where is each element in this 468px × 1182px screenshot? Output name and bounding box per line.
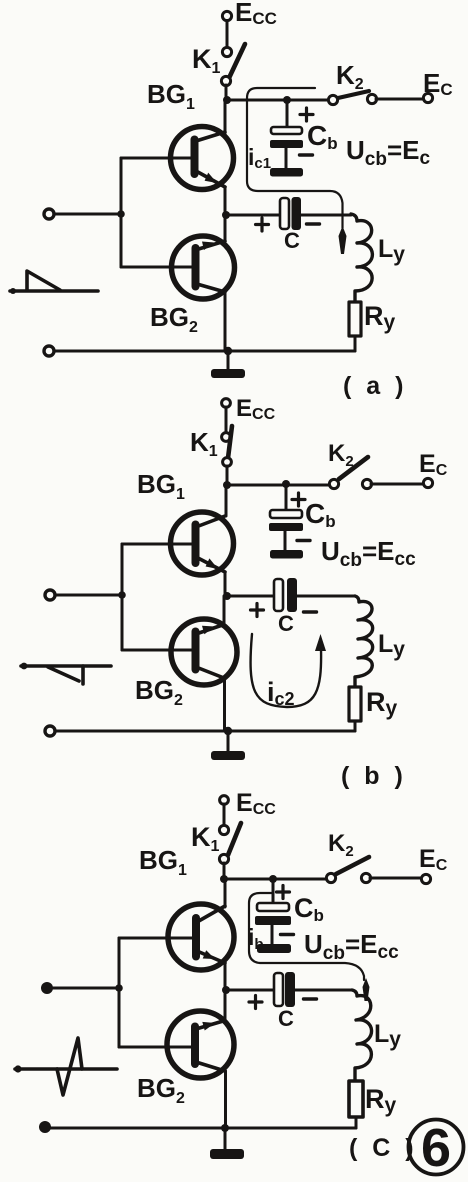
capacitor C right plate (b) (287, 578, 297, 612)
svg-text:Cb: Cb (305, 498, 336, 531)
svg-text:ic2: ic2 (267, 677, 295, 709)
label - of C (c) (304, 997, 317, 1000)
wire Ecc to K1 (c) (223, 804, 226, 826)
svg-text:Ucb=Ecc: Ucb=Ecc (304, 929, 399, 964)
svg-text:ic1: ic1 (248, 144, 271, 172)
ground bar under Cb (b) (270, 550, 303, 559)
junction ground node (c) (221, 1124, 229, 1132)
input waveform falling sawtooth (b) (21, 663, 111, 684)
transistor BG1 (b) (171, 485, 234, 596)
svg-text:EC: EC (423, 68, 453, 99)
figure number 6 circled (409, 1118, 464, 1178)
switch K1 upper contact (a) (222, 47, 231, 56)
capacitor Cb positive plate (b) (270, 510, 302, 518)
label + of C (a) (256, 218, 269, 231)
svg-text:6: 6 (421, 1118, 451, 1178)
wire Cb bottom stub (a) (285, 148, 288, 168)
terminal Ec (a) (423, 93, 432, 102)
junction Cb top (b) (282, 480, 290, 488)
wire top rail (c) (224, 878, 327, 881)
switch K2 blade open (b) (339, 457, 368, 479)
wire node to C (b) (227, 595, 274, 598)
junction emitter node (c) (222, 986, 230, 994)
junction collector rail (c) (220, 875, 228, 883)
wire base lead BG1 (a) (121, 157, 191, 160)
wire K2 to Ec (a) (376, 98, 423, 101)
wire K1 to rail (a) (225, 85, 228, 100)
capacitor Cb positive plate (c) (257, 903, 289, 911)
capacitor C left plate (b) (274, 579, 283, 611)
resistor Ry (a) (349, 302, 361, 336)
wire bottom return (b) (50, 730, 355, 733)
transistor BG2 (b) (171, 596, 237, 731)
wire base lead BG2 (b) (122, 649, 192, 652)
terminal input upper solid (c) (41, 982, 53, 994)
resistor Ry (c) (349, 1081, 363, 1117)
capacitor C right plate (a) (292, 197, 302, 230)
label - of Cb (b) (297, 539, 310, 542)
switch K2 right contact (b) (362, 479, 371, 488)
junction collector rail (b) (223, 481, 231, 489)
svg-text:Cb: Cb (307, 120, 338, 153)
wire Ecc to K1 (a) (226, 21, 229, 48)
junction emitter node (a) (222, 211, 230, 219)
wire C to Ly (a) (301, 214, 351, 217)
wire ground stub (c) (224, 1128, 227, 1149)
svg-text:BG2: BG2 (150, 302, 198, 336)
wire base lead BG2 (c) (119, 1046, 191, 1049)
capacitor Cb positive plate (a) (271, 127, 302, 134)
svg-text:K2: K2 (336, 60, 364, 93)
inductor Ly (a) (351, 214, 372, 302)
wire C to Ly (c) (295, 989, 352, 992)
resistor Ry (b) (349, 687, 361, 721)
ground (b) (211, 751, 245, 760)
svg-text:ECC: ECC (236, 395, 276, 423)
wire top rail (a) (227, 99, 329, 102)
svg-text:BG2: BG2 (135, 675, 183, 709)
wire input to bases (c) (47, 987, 119, 990)
terminal Ec (c) (421, 874, 430, 883)
input waveform sawtooth (a) (10, 271, 98, 294)
wire top rail (b) (227, 484, 330, 487)
capacitor C left plate (c) (274, 973, 283, 1006)
transistor BG2 (a) (172, 215, 235, 351)
label + of Cb (b) (292, 493, 305, 506)
svg-text:EC: EC (419, 450, 448, 479)
svg-text:K1: K1 (191, 822, 220, 855)
svg-text:Ry: Ry (366, 687, 398, 720)
switch K1 blade (c) (228, 823, 241, 855)
switch K2 blade closed (a) (338, 91, 369, 98)
terminal Ecc (b) (222, 399, 231, 408)
wire K2 to Ec (b) (371, 483, 424, 486)
svg-text:( a ): ( a ) (343, 372, 407, 400)
ground (a) (211, 369, 245, 378)
transistor BG2 (c) (167, 990, 234, 1128)
wire K1 to rail (b) (226, 466, 229, 485)
switch K1 lower contact (b) (223, 458, 232, 467)
junction collector rail (a) (223, 96, 231, 104)
wire bottom return (a) (49, 350, 355, 353)
svg-text:BG1: BG1 (139, 845, 187, 879)
wire Cb bottom stub (c) (271, 925, 274, 944)
switch K2 blade open (c) (336, 857, 369, 874)
wire base lead BG1 (b) (122, 543, 192, 546)
terminal input upper (a) (44, 209, 54, 219)
switch K2 left contact (c) (326, 873, 335, 882)
capacitor Cb negative plate (b) (269, 523, 303, 531)
transistor BG1 (c) (168, 879, 234, 990)
svg-text:EC: EC (419, 845, 448, 874)
svg-text:K1: K1 (190, 427, 218, 460)
svg-text:ECC: ECC (236, 789, 276, 818)
junction base node (a) (117, 210, 125, 218)
capacitor C left plate (a) (280, 198, 289, 229)
svg-text:K2: K2 (328, 440, 354, 470)
wire Cb top stub (c) (272, 879, 275, 902)
wire Ry to bottom (c) (355, 1117, 358, 1128)
terminal input lower solid (c) (39, 1121, 51, 1133)
capacitor C right plate (c) (285, 972, 295, 1007)
terminal Ecc (c) (220, 796, 229, 805)
svg-text:ECC: ECC (235, 0, 277, 28)
switch K1 upper contact (b) (222, 433, 231, 442)
wire Ry to bottom (a) (354, 336, 357, 351)
switch K2 left contact (b) (329, 479, 338, 488)
switch K1 blade (b) (228, 426, 232, 458)
svg-text:Ly: Ly (374, 1020, 401, 1051)
switch K1 lower contact (a) (221, 76, 230, 85)
wire base lead BG1 (c) (119, 937, 192, 940)
label + of C (b) (251, 604, 264, 617)
label - of Cb (a) (300, 153, 313, 156)
svg-text:Ucb=Ec: Ucb=Ec (346, 135, 431, 170)
current arrow ib (c) (363, 978, 370, 1001)
capacitor Cb negative plate (a) (270, 140, 303, 148)
junction ground node (a) (224, 347, 232, 355)
label - of C (a) (307, 222, 320, 225)
junction base node (b) (118, 591, 126, 599)
svg-text:BG1: BG1 (137, 469, 185, 503)
terminal input lower (b) (45, 726, 55, 736)
wire Cb top stub (b) (285, 484, 288, 510)
label - of C (b) (304, 610, 317, 613)
wire Ry to bottom (b) (354, 721, 357, 731)
switch K2 left contact (a) (328, 95, 337, 104)
wire bottom return (c) (45, 1127, 356, 1130)
svg-text:Ucb=Ecc: Ucb=Ecc (321, 536, 416, 571)
svg-text:( b ): ( b ) (341, 762, 407, 790)
current arrow ic2 (b) (315, 634, 326, 651)
wire base bus (c) (118, 938, 121, 1047)
wire Ecc to K1 (b) (225, 407, 228, 433)
svg-text:K1: K1 (192, 44, 221, 77)
svg-text:BG2: BG2 (137, 1073, 185, 1107)
wire C to Ly (b) (297, 595, 355, 598)
junction Cb top (a) (283, 96, 291, 104)
label - of Cb (c) (281, 933, 294, 936)
svg-text:Ly: Ly (378, 235, 405, 266)
wire base bus (a) (120, 158, 123, 267)
switch K1 lower contact (c) (219, 854, 228, 863)
label + of C (c) (249, 996, 262, 1009)
svg-text:Ry: Ry (365, 1084, 397, 1117)
capacitor Cb negative plate (c) (255, 916, 291, 925)
switch K2 right contact (c) (361, 873, 370, 882)
wire K2 to Ec (c) (370, 877, 421, 880)
wire Cb top stub (a) (286, 100, 289, 126)
wire ground stub (b) (227, 731, 230, 751)
ground bar under Cb (a) (270, 168, 303, 177)
wire node to C (a) (226, 214, 280, 217)
svg-text:Ry: Ry (364, 301, 396, 334)
input waveform pulse (c) (14, 1038, 117, 1095)
wire ground stub (a) (227, 351, 230, 369)
current path ib curve (c) (249, 893, 364, 980)
svg-text:C: C (278, 1006, 294, 1031)
svg-text:C: C (284, 228, 300, 253)
wire Cb bottom stub (b) (284, 531, 287, 550)
current loop ic2 (b) (251, 634, 322, 707)
label + of Cb (c) (277, 886, 290, 899)
junction Cb top (c) (269, 875, 277, 883)
svg-text:K2: K2 (328, 830, 354, 860)
svg-text:Cb: Cb (294, 893, 324, 925)
wire input to bases (b) (55, 594, 122, 597)
ground bar under Cb (c) (257, 944, 291, 953)
junction base node (c) (115, 984, 123, 992)
junction ground node (b) (224, 727, 232, 735)
wire K1 to rail (c) (223, 863, 226, 879)
current arrow ic1 (a) (339, 226, 347, 254)
terminal Ecc (a) (222, 11, 231, 20)
svg-text:ib: ib (248, 924, 264, 953)
svg-text:C: C (278, 611, 294, 636)
svg-text:BG1: BG1 (147, 79, 195, 113)
wire base lead BG2 (a) (121, 266, 192, 269)
transistor BG1 (a) (171, 100, 234, 215)
switch K1 upper contact (c) (219, 825, 228, 834)
junction emitter node (b) (223, 592, 231, 600)
svg-text:Ly: Ly (378, 630, 405, 661)
switch K2 right contact (a) (367, 94, 376, 103)
ground (c) (210, 1149, 244, 1159)
terminal input lower (a) (44, 346, 54, 356)
switch K1 blade (a) (229, 44, 245, 78)
wire input to bases (a) (54, 213, 121, 216)
inductor Ly (b) (355, 596, 373, 687)
wire base bus (b) (121, 544, 124, 650)
inductor Ly (c) (352, 990, 372, 1081)
wire node to C (c) (226, 989, 274, 992)
label + of Cb (a) (300, 108, 313, 121)
current path ic1 curve (a) (247, 88, 343, 228)
terminal Ec (b) (423, 478, 432, 487)
terminal input upper (b) (45, 590, 55, 600)
